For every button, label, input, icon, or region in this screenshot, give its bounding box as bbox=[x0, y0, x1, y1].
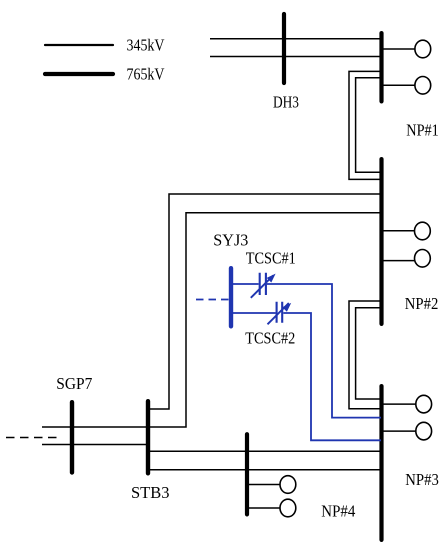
wire external dashed stub at SGP7 bbox=[6, 437, 59, 439]
wire NP#2 generator 1 stub bbox=[381, 230, 415, 232]
svg-text:TCSC#1: TCSC#1 bbox=[246, 248, 296, 267]
wire NP#3 generator 2 stub bbox=[381, 430, 416, 432]
wire NP#4 generator 1 stub bbox=[247, 484, 280, 486]
bus NP#2 bbox=[379, 159, 383, 324]
wire NP#1 generator 2 stub bbox=[381, 84, 415, 86]
wire TCSC#1 branch left bbox=[231, 283, 259, 285]
generator NP#4-G1 bbox=[280, 476, 296, 494]
svg-text:345kV: 345kV bbox=[127, 36, 165, 55]
wire NP#4 generator 2 stub bbox=[247, 507, 280, 509]
legend 345kV line bbox=[45, 44, 113, 46]
wire NP#2-STB3 circuit inner (through SGP7) bbox=[42, 213, 381, 427]
svg-text:TCSC#2: TCSC#2 bbox=[245, 328, 295, 347]
svg-text:SYJ3: SYJ3 bbox=[213, 231, 248, 250]
wire TCSC#1 branch right to NP#3 bbox=[267, 284, 381, 418]
wire STB3-NP#3 circuit 2 bbox=[148, 469, 381, 471]
generator NP#3-G2 bbox=[416, 422, 432, 440]
generator NP#2-G1 bbox=[415, 222, 431, 240]
generator NP#1-G1 bbox=[415, 40, 431, 58]
capacitor TCSC#2 plates bbox=[277, 302, 283, 323]
wire SGP7-STB3 circuit 2 bbox=[42, 444, 148, 446]
svg-text:765kV: 765kV bbox=[127, 65, 165, 84]
wire NP#2 generator 2 stub bbox=[381, 260, 415, 262]
svg-text:STB3: STB3 bbox=[131, 483, 170, 502]
wire TCSC#2 branch right to NP#3 bbox=[283, 313, 381, 440]
bus STB3 bbox=[146, 401, 150, 473]
wire blue dashed stub at SYJ3 bbox=[196, 299, 229, 301]
svg-text:NP#4: NP#4 bbox=[321, 501, 355, 520]
TCSC#2 variable arrow bbox=[268, 303, 289, 324]
wire NP#1-NP#2 circuit inner bbox=[356, 78, 381, 172]
bus NP#4 bbox=[245, 434, 249, 514]
generator NP#4-G2 bbox=[280, 499, 296, 517]
svg-text:SGP7: SGP7 bbox=[56, 374, 92, 393]
svg-text:NP#2: NP#2 bbox=[405, 294, 439, 313]
wire NP#2-NP#3 circuit outer bbox=[349, 301, 381, 409]
wire NP#1-NP#2 circuit outer bbox=[349, 71, 381, 179]
wire TCSC#2 branch left bbox=[231, 312, 276, 314]
svg-text:NP#1: NP#1 bbox=[406, 120, 439, 139]
wire NP#1 generator 1 stub bbox=[381, 48, 415, 50]
wire DH3 top circuit 1 bbox=[210, 38, 381, 40]
wire DH3 top circuit 2 bbox=[210, 56, 381, 58]
wire NP#2-NP#3 circuit inner bbox=[356, 308, 381, 399]
wire STB3-NP#3 circuit 1 bbox=[148, 450, 381, 452]
generator NP#2-G2 bbox=[415, 249, 431, 267]
generator NP#1-G2 bbox=[415, 77, 431, 95]
bus SYJ3 (blue) bbox=[229, 268, 233, 326]
svg-text:DH3: DH3 bbox=[273, 93, 299, 112]
svg-text:NP#3: NP#3 bbox=[405, 470, 439, 489]
legend 765kV line bbox=[45, 72, 113, 76]
TCSC#1 variable arrow bbox=[251, 275, 273, 297]
generator NP#3-G1 bbox=[416, 395, 432, 413]
bus SGP7 bbox=[70, 402, 74, 472]
wire NP#3 generator 1 stub bbox=[381, 403, 416, 405]
bus DH3 bbox=[282, 14, 286, 83]
wire NP#2-STB3 circuit outer bbox=[150, 194, 381, 409]
bus NP#3 bbox=[379, 386, 383, 540]
bus NP#1 bbox=[379, 33, 383, 101]
capacitor TCSC#1 plates bbox=[260, 273, 266, 295]
